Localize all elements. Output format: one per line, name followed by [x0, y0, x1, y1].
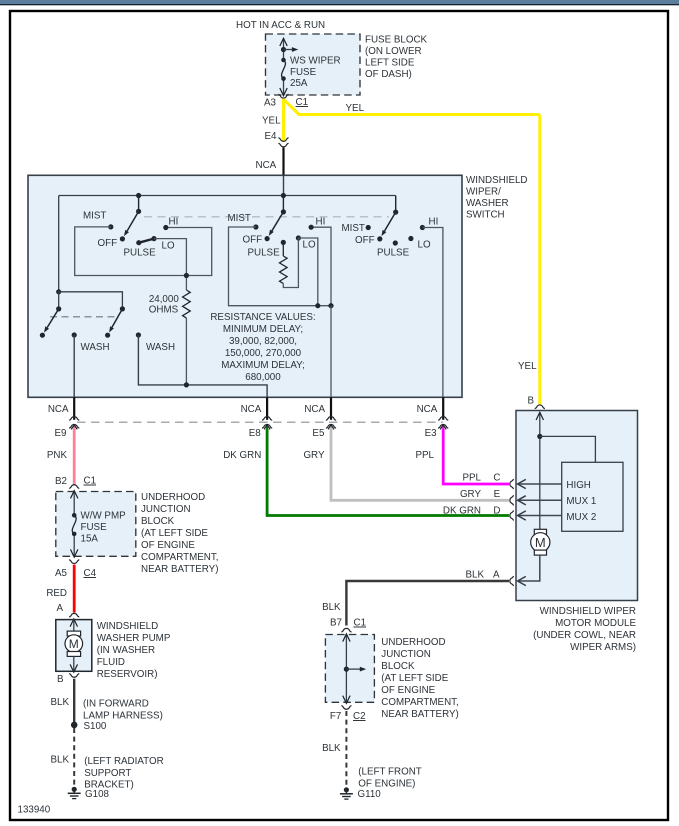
wire: HI 3 right and down to E3 [422, 228, 443, 398]
svg-text:(AT LEFT SIDE: (AT LEFT SIDE [381, 673, 448, 684]
svg-text:FUSE: FUSE [290, 67, 317, 78]
svg-text:UNDERHOOD: UNDERHOOD [141, 492, 205, 503]
svg-text:(IN WASHER: (IN WASHER [97, 645, 155, 656]
underhood junction block 2 dashed box [325, 635, 374, 703]
contact OFF 1 [120, 236, 125, 241]
svg-text:DK GRN: DK GRN [223, 450, 261, 461]
svg-text:FUSE: FUSE [81, 522, 108, 533]
svg-text:HI: HI [169, 217, 179, 228]
svg-text:WS WIPER: WS WIPER [290, 56, 341, 67]
node: group 2 bottom junction right [328, 303, 333, 308]
wire GRY down and to module [331, 429, 509, 500]
switch arm 2 (to OFF) [272, 212, 284, 231]
wire NCA inside switch box [283, 175, 285, 195]
branch arrow right [284, 49, 293, 51]
svg-text:MOTOR MODULE: MOTOR MODULE [555, 618, 636, 629]
svg-text:PULSE: PULSE [248, 248, 281, 259]
svg-text:LAMP HARNESS): LAMP HARNESS) [83, 711, 163, 722]
svg-text:E5: E5 [312, 428, 325, 439]
svg-text:WASH: WASH [146, 342, 175, 353]
windshield wiper motor module box [516, 411, 638, 601]
svg-text:133940: 133940 [18, 805, 51, 816]
node: wash bus top [56, 289, 61, 294]
node: bus junction group 1 [136, 193, 141, 198]
svg-text:GRY: GRY [303, 450, 325, 461]
svg-text:LO: LO [162, 241, 175, 252]
svg-text:MAXIMUM DELAY;: MAXIMUM DELAY; [221, 360, 305, 371]
wire DK GRN down and to module [267, 429, 509, 516]
svg-text:E: E [494, 489, 501, 500]
contact MIST 3 [366, 225, 371, 230]
svg-text:BLOCK: BLOCK [381, 661, 415, 672]
svg-text:MIST: MIST [342, 223, 365, 234]
contact MIST 2 [253, 224, 258, 229]
connector E4 cups [278, 138, 288, 142]
svg-text:B: B [527, 396, 534, 407]
wash contact 1b (to E9) [72, 332, 77, 337]
down arrow to A3 [280, 88, 287, 96]
fuse block 1 feed wire with up arrow [283, 39, 285, 60]
wire: LO 1 to resistor line [154, 239, 186, 290]
svg-text:OFF: OFF [355, 235, 375, 246]
contact OFF 2 [265, 236, 270, 241]
module logic box [562, 462, 623, 531]
svg-text:A: A [493, 569, 500, 580]
wire BLK dashed to G108 [73, 728, 75, 787]
switch arm 3 (to OFF) [385, 212, 396, 231]
svg-text:C2: C2 [353, 711, 366, 722]
svg-text:SUPPORT: SUPPORT [84, 768, 131, 779]
svg-text:PULSE: PULSE [377, 248, 410, 259]
svg-text:(AT LEFT SIDE: (AT LEFT SIDE [141, 528, 208, 539]
fuse block 1 dashed box [266, 34, 361, 95]
svg-text:15A: 15A [81, 534, 99, 545]
svg-text:NCA: NCA [256, 160, 277, 171]
node: wash pivot 2 [120, 306, 125, 311]
wire: resistor to wash bus [185, 318, 187, 385]
svg-text:LO: LO [418, 240, 431, 251]
wash contact 2b (to E8) [136, 332, 141, 337]
svg-text:YEL: YEL [262, 116, 281, 127]
svg-text:PULSE: PULSE [124, 248, 157, 259]
svg-text:BLK: BLK [322, 743, 341, 754]
wire: junction to logic box [540, 436, 596, 462]
svg-text:HI: HI [429, 217, 439, 228]
wire: top bus [59, 195, 396, 197]
connector C at module edge [510, 479, 514, 489]
svg-text:NEAR BATTERY): NEAR BATTERY) [141, 564, 218, 575]
wire NCA into switch box [282, 147, 284, 195]
contact HI 1 [163, 225, 168, 230]
wire: bus left drop to wash switches [58, 196, 60, 292]
svg-text:RESERVOIR): RESERVOIR) [97, 669, 158, 680]
node: module feed junction [537, 434, 542, 439]
wire YEL from A3 down [282, 99, 285, 142]
ground G108 [72, 787, 77, 792]
wire YEL diagonal branch [284, 100, 299, 115]
connector dashed tie line [77, 421, 443, 423]
switch arm 1 (to OFF) [127, 211, 139, 231]
svg-text:(LEFT RADIATOR: (LEFT RADIATOR [84, 756, 163, 767]
wire PNK [73, 429, 76, 485]
node: pivot 3 [393, 210, 398, 215]
svg-text:WINDSHIELD: WINDSHIELD [466, 175, 528, 186]
wash switch arm 1 [47, 309, 59, 328]
svg-text:OF ENGINE: OF ENGINE [141, 540, 195, 551]
pulse wiper pivot 2 [281, 240, 286, 245]
svg-text:OF ENGINE: OF ENGINE [381, 685, 435, 696]
svg-text:YEL: YEL [346, 103, 365, 114]
svg-text:OF ENGINE): OF ENGINE) [358, 779, 415, 790]
contact OFF 3 [377, 236, 382, 241]
windshield wiper/washer switch box [28, 175, 462, 397]
switch pole 1 stem [138, 196, 140, 212]
wire YEL right vertical down to module B [538, 115, 541, 405]
connector E5 [326, 417, 336, 421]
wire BLK dashed to G110 [345, 711, 347, 787]
wiper motor M [534, 529, 546, 534]
underhood junction block 1 dashed box [56, 492, 136, 557]
mechanical linkage dashed line [144, 216, 389, 218]
svg-text:E3: E3 [425, 428, 438, 439]
svg-text:C1: C1 [296, 97, 309, 108]
svg-text:WASH: WASH [81, 342, 110, 353]
svg-text:HIGH: HIGH [566, 480, 591, 491]
svg-text:BLK: BLK [50, 697, 69, 708]
connector at pump B [69, 674, 79, 678]
wire: group 2 contact rectangle [229, 227, 332, 306]
svg-text:E9: E9 [55, 428, 67, 439]
svg-text:LO: LO [303, 240, 316, 251]
svg-text:RESISTANCE VALUES:: RESISTANCE VALUES: [210, 312, 315, 323]
connector A at module edge [510, 576, 514, 586]
svg-text:HI: HI [316, 217, 326, 228]
wire: wash cross bus [59, 292, 123, 309]
top window bar [0, 0, 679, 4]
svg-text:WINDSHIELD: WINDSHIELD [97, 621, 159, 632]
svg-text:NCA: NCA [304, 404, 325, 415]
contact HI 2 [309, 225, 314, 230]
wire NCA out E9 [73, 397, 75, 420]
contact MIST 1 [108, 224, 113, 229]
connector E8 [262, 417, 272, 421]
pulse wiper arm 1 [139, 239, 154, 243]
svg-text:PNK: PNK [47, 450, 68, 461]
wash linkage dashed [50, 316, 117, 318]
svg-text:M: M [535, 535, 546, 550]
svg-text:WINDSHIELD WIPER: WINDSHIELD WIPER [540, 606, 636, 617]
contact HI 3 [420, 225, 425, 230]
node: resistor meets wash wire [184, 382, 189, 387]
wire BLK from pump [73, 679, 75, 723]
connector E9 [69, 417, 79, 421]
svg-text:(UNDER COWL, NEAR: (UNDER COWL, NEAR [533, 630, 636, 641]
svg-text:(ON LOWER: (ON LOWER [365, 46, 422, 57]
wire NCA out E5 [330, 397, 332, 420]
svg-text:WIPER/: WIPER/ [466, 187, 501, 198]
junction block 2 feed line [345, 634, 347, 703]
svg-text:M: M [69, 637, 79, 651]
svg-text:A5: A5 [55, 568, 68, 579]
svg-text:B: B [57, 674, 64, 685]
wire: wash 2b down right and out [138, 335, 267, 397]
svg-text:F7: F7 [330, 711, 341, 722]
node: junction block 2 tap [344, 667, 349, 672]
splice S100 [71, 722, 78, 729]
wire: group 1 contact rectangle [75, 227, 212, 276]
contact PULSE 3 [393, 240, 398, 245]
svg-text:FLUID: FLUID [97, 657, 125, 668]
svg-text:MUX 2: MUX 2 [566, 512, 596, 523]
wire: LO 2 right and down [298, 238, 317, 306]
svg-text:C4: C4 [84, 568, 97, 579]
svg-text:NCA: NCA [241, 404, 262, 415]
svg-text:NCA: NCA [48, 404, 69, 415]
node: pivot 2 [281, 209, 286, 214]
wash contact 1a [40, 333, 45, 338]
svg-text:COMPARTMENT,: COMPARTMENT, [141, 552, 218, 563]
connector at pump A [69, 613, 79, 617]
svg-text:D: D [493, 505, 500, 516]
svg-text:YEL: YEL [518, 361, 537, 372]
svg-text:LEFT SIDE: LEFT SIDE [365, 58, 415, 69]
branch arrow right (block 2) [346, 668, 360, 670]
contact LO 3 [408, 236, 413, 241]
svg-text:OHMS: OHMS [149, 305, 179, 316]
svg-text:24,000: 24,000 [149, 294, 180, 305]
svg-text:A3: A3 [264, 98, 277, 109]
svg-text:FUSE BLOCK: FUSE BLOCK [365, 35, 428, 46]
svg-text:PPL: PPL [415, 450, 434, 461]
svg-text:OFF: OFF [243, 235, 263, 246]
svg-text:(IN FORWARD: (IN FORWARD [83, 699, 149, 710]
svg-text:BLK: BLK [50, 755, 69, 766]
svg-text:RED: RED [46, 588, 67, 599]
wire NCA out E3 [442, 397, 444, 420]
svg-text:C1: C1 [354, 618, 367, 629]
module feed line with up arrow [539, 412, 541, 529]
svg-text:C1: C1 [84, 476, 97, 487]
svg-text:E4: E4 [265, 131, 278, 142]
svg-text:JUNCTION: JUNCTION [141, 504, 191, 515]
svg-text:MIST: MIST [228, 213, 251, 224]
svg-text:A: A [56, 603, 63, 614]
wire: E5 drop inside box [330, 306, 332, 398]
wire: wash 1b down to box edge [73, 335, 75, 397]
svg-text:B2: B2 [55, 476, 67, 487]
node: wash pivot 1 [56, 306, 61, 311]
pump feed arrows and motor M [70, 619, 77, 627]
svg-text:WASHER: WASHER [466, 198, 509, 209]
svg-text:JUNCTION: JUNCTION [381, 649, 431, 660]
connector at module B [535, 405, 545, 409]
switch pole 3 stem [395, 196, 397, 213]
svg-text:680,000: 680,000 [245, 372, 281, 383]
svg-text:COMPARTMENT,: COMPARTMENT, [381, 697, 458, 708]
svg-text:MUX 1: MUX 1 [566, 496, 596, 507]
svg-text:MINIMUM DELAY;: MINIMUM DELAY; [223, 324, 303, 335]
node: group 2 bottom junction left [315, 303, 320, 308]
node: pivot 1 [136, 209, 141, 214]
svg-text:G108: G108 [85, 789, 110, 800]
svg-text:C: C [493, 473, 500, 484]
svg-text:E8: E8 [249, 428, 262, 439]
MUX 2 input line with arrow [519, 515, 562, 517]
wire BLK from module A to junction block 2 [346, 581, 509, 626]
wire: motor to A connector [519, 555, 540, 581]
svg-text:25A: 25A [290, 78, 308, 89]
svg-text:S100: S100 [84, 721, 107, 732]
wire: resistor bottom to LO 2 [283, 238, 298, 288]
svg-text:OFF: OFF [98, 238, 118, 249]
svg-text:BLOCK: BLOCK [141, 516, 175, 527]
svg-text:39,000, 82,000,: 39,000, 82,000, [229, 336, 297, 347]
svg-text:150,000, 270,000: 150,000, 270,000 [225, 348, 302, 359]
svg-text:SWITCH: SWITCH [466, 210, 505, 221]
wire NCA out E8 [266, 397, 268, 420]
svg-text:WASHER PUMP: WASHER PUMP [97, 633, 171, 644]
connector E3 [438, 417, 448, 421]
resistor 24,000 OHMS [183, 290, 191, 318]
svg-text:W/W PMP: W/W PMP [81, 511, 127, 522]
connector E at module edge [510, 495, 514, 505]
connector cup at A3 [278, 94, 288, 98]
wire YEL horizontal to motor module [298, 113, 540, 116]
wire RED [73, 565, 76, 613]
svg-text:BLK: BLK [322, 602, 341, 613]
wire PPL down and to module [443, 429, 509, 484]
svg-text:DK GRN: DK GRN [443, 505, 481, 516]
svg-text:UNDERHOOD: UNDERHOOD [381, 637, 445, 648]
switch pole 2 stem [282, 196, 284, 212]
svg-text:NEAR BATTERY): NEAR BATTERY) [381, 709, 458, 720]
windshield washer pump box [56, 620, 92, 672]
wash switch arm 2 [112, 309, 122, 327]
fuse W/W PMP 15A [72, 513, 77, 518]
fuse WS WIPER 25A [281, 58, 286, 63]
node: fuse feed junction [281, 47, 286, 52]
svg-text:G110: G110 [358, 789, 382, 800]
svg-text:GRY: GRY [460, 489, 482, 500]
node: bus junction group 2 [281, 193, 286, 198]
node: junction on rect bottom [184, 273, 189, 278]
MUX 1 input line with arrow [519, 499, 562, 501]
wash contact 2a [105, 333, 110, 338]
svg-text:NCA: NCA [417, 404, 438, 415]
connector D at module edge [510, 510, 514, 520]
svg-text:WIPER ARMS): WIPER ARMS) [570, 642, 636, 653]
svg-text:B7: B7 [330, 618, 342, 629]
contact LO 2 [296, 235, 301, 240]
svg-text:MIST: MIST [83, 211, 106, 222]
W/W PMP fuse feed line [73, 491, 75, 515]
svg-text:(LEFT FRONT: (LEFT FRONT [358, 767, 422, 778]
svg-text:OF DASH): OF DASH) [365, 69, 412, 80]
delay resistor group 2 [282, 242, 284, 256]
svg-text:PPL: PPL [462, 473, 481, 484]
svg-text:BLK: BLK [465, 569, 484, 580]
ground G110 [344, 787, 349, 792]
HIGH input line with arrow [519, 483, 562, 485]
svg-text:HOT IN ACC & RUN: HOT IN ACC & RUN [236, 20, 325, 31]
